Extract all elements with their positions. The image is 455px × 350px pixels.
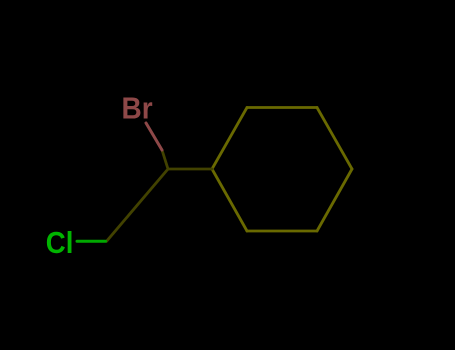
- wire bond Br to CH olive half: [162, 150, 168, 169]
- wire ring edge L-TL: [212, 108, 247, 170]
- wire bond CH to CH2: [107, 169, 169, 241]
- wire ring edge BR-BL: [247, 230, 317, 233]
- svg-text:Br: Br: [122, 90, 153, 125]
- wire ring edge BL-L: [212, 169, 247, 231]
- bond Cl to CH2 green half: [77, 240, 106, 243]
- wire ring edge TR-R: [317, 108, 352, 170]
- wire bond CH to ring: [168, 168, 212, 171]
- cyclohexane ring: [107, 108, 353, 242]
- bond Br to CH red half: [146, 123, 162, 150]
- wire ring edge R-BR: [317, 169, 352, 231]
- wire ring edge TL-TR: [247, 106, 317, 109]
- svg-text:Cl: Cl: [46, 225, 74, 260]
